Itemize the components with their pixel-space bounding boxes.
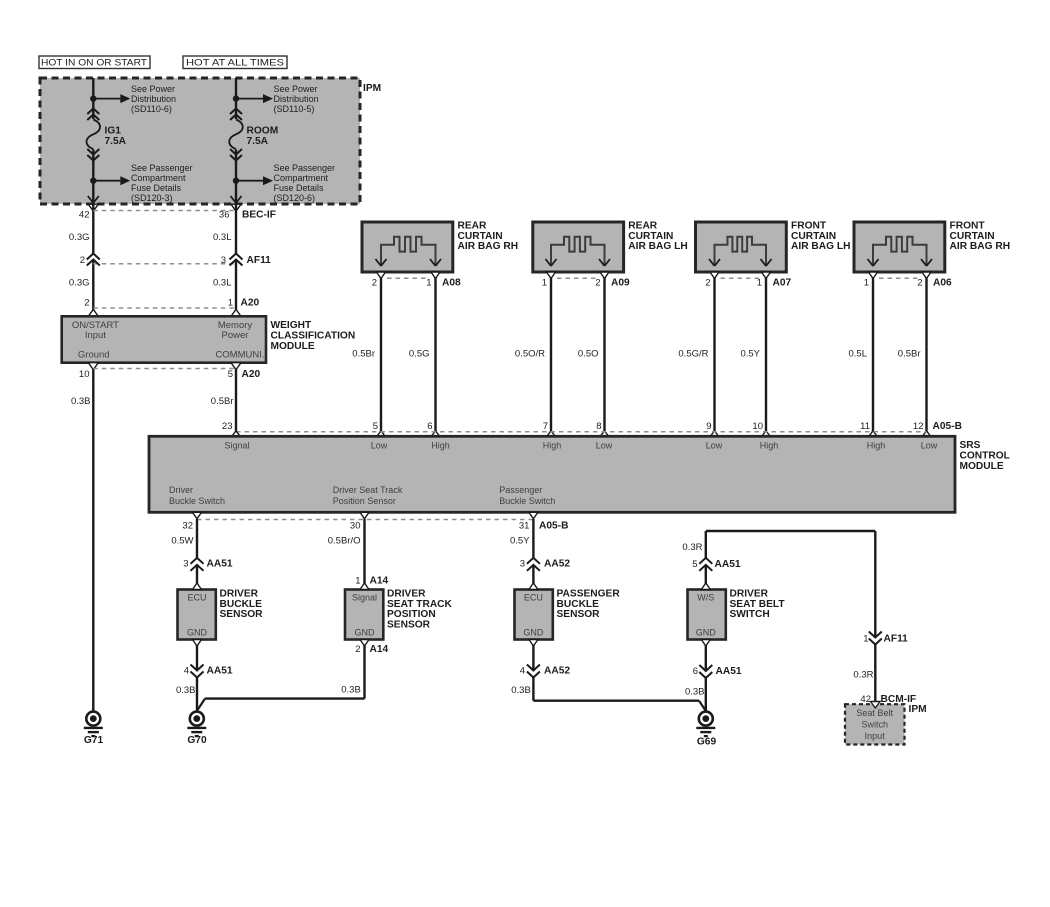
- svg-text:PASSENGER: PASSENGER: [557, 588, 621, 599]
- svg-text:ROOM: ROOM: [247, 126, 279, 137]
- svg-text:1: 1: [228, 298, 233, 309]
- svg-text:WEIGHT: WEIGHT: [271, 320, 313, 331]
- svg-text:Input: Input: [85, 330, 106, 341]
- svg-text:5: 5: [228, 369, 233, 380]
- svg-text:(SD120-3): (SD120-3): [131, 193, 173, 203]
- svg-text:MODULE: MODULE: [271, 341, 315, 352]
- svg-text:Driver: Driver: [169, 485, 193, 495]
- svg-text:Distribution: Distribution: [274, 94, 319, 104]
- svg-text:A20: A20: [242, 369, 261, 380]
- svg-text:AA52: AA52: [544, 666, 570, 677]
- svg-text:DRIVER: DRIVER: [220, 588, 259, 599]
- svg-text:0.5O/R: 0.5O/R: [515, 349, 545, 360]
- svg-text:IG1: IG1: [105, 126, 122, 137]
- svg-text:Compartment: Compartment: [131, 173, 186, 183]
- svg-text:Buckle Switch: Buckle Switch: [169, 496, 225, 506]
- svg-text:0.5G/R: 0.5G/R: [678, 349, 708, 360]
- svg-text:POSITION: POSITION: [387, 609, 436, 620]
- svg-text:0.5O: 0.5O: [578, 349, 599, 360]
- svg-text:0.5G: 0.5G: [409, 349, 430, 360]
- svg-text:A09: A09: [611, 277, 630, 288]
- svg-text:BUCKLE: BUCKLE: [220, 599, 263, 610]
- svg-text:BUCKLE: BUCKLE: [557, 599, 600, 610]
- svg-text:GND: GND: [696, 627, 717, 637]
- svg-text:AF11: AF11: [884, 633, 909, 644]
- svg-text:23: 23: [222, 421, 233, 432]
- svg-text:7: 7: [543, 421, 548, 432]
- svg-text:4: 4: [184, 666, 189, 677]
- svg-text:A06: A06: [933, 277, 952, 288]
- svg-text:Power: Power: [222, 330, 249, 341]
- svg-text:SWITCH: SWITCH: [730, 609, 770, 620]
- svg-text:AIR BAG RH: AIR BAG RH: [458, 241, 519, 252]
- svg-text:AA52: AA52: [544, 559, 570, 570]
- svg-text:6: 6: [427, 421, 432, 432]
- svg-text:SENSOR: SENSOR: [557, 609, 601, 620]
- svg-text:0.5Y: 0.5Y: [740, 349, 760, 360]
- svg-text:See Passenger: See Passenger: [274, 163, 336, 173]
- svg-text:GND: GND: [355, 627, 376, 637]
- svg-text:COMMUNI.: COMMUNI.: [215, 349, 264, 360]
- svg-text:2: 2: [80, 255, 85, 266]
- svg-text:32: 32: [182, 520, 193, 531]
- svg-text:12: 12: [913, 421, 924, 432]
- svg-text:A05-B: A05-B: [933, 421, 962, 432]
- svg-text:HOT AT ALL TIMES: HOT AT ALL TIMES: [186, 58, 284, 69]
- svg-text:0.3G: 0.3G: [69, 278, 90, 289]
- svg-text:G71: G71: [84, 735, 104, 746]
- svg-text:CLASSIFICATION: CLASSIFICATION: [271, 330, 356, 341]
- svg-text:Switch: Switch: [861, 719, 888, 729]
- svg-text:0.5Br: 0.5Br: [211, 396, 234, 407]
- svg-text:See Power: See Power: [274, 84, 318, 94]
- svg-text:AIR BAG RH: AIR BAG RH: [950, 241, 1011, 252]
- svg-text:0.5W: 0.5W: [171, 536, 193, 547]
- svg-text:High: High: [867, 441, 886, 451]
- svg-text:AA51: AA51: [207, 559, 233, 570]
- svg-text:SENSOR: SENSOR: [220, 609, 264, 620]
- svg-text:0.3L: 0.3L: [213, 232, 232, 243]
- svg-text:Ground: Ground: [78, 349, 110, 360]
- svg-text:Signal: Signal: [224, 441, 249, 451]
- svg-text:AA51: AA51: [716, 666, 742, 677]
- svg-text:Distribution: Distribution: [131, 94, 176, 104]
- svg-text:G70: G70: [187, 735, 207, 746]
- svg-text:3: 3: [520, 559, 525, 570]
- svg-text:Low: Low: [371, 441, 388, 451]
- svg-text:High: High: [543, 441, 562, 451]
- svg-text:See Power: See Power: [131, 84, 175, 94]
- svg-text:IPM: IPM: [363, 83, 381, 94]
- svg-text:SRS: SRS: [960, 440, 981, 451]
- svg-text:2: 2: [917, 277, 922, 288]
- svg-text:0.3B: 0.3B: [71, 396, 91, 407]
- svg-text:6: 6: [693, 666, 698, 677]
- svg-text:0.5Br/O: 0.5Br/O: [328, 536, 361, 547]
- svg-text:SEAT BELT: SEAT BELT: [730, 599, 786, 610]
- svg-text:1: 1: [426, 277, 431, 288]
- svg-text:Input: Input: [865, 731, 886, 741]
- svg-text:A20: A20: [241, 298, 260, 309]
- svg-text:5: 5: [692, 559, 697, 570]
- svg-text:Passenger: Passenger: [499, 485, 542, 495]
- svg-text:4: 4: [520, 666, 525, 677]
- svg-text:1: 1: [863, 633, 868, 644]
- svg-text:0.5Br: 0.5Br: [352, 349, 375, 360]
- svg-text:A08: A08: [442, 277, 461, 288]
- svg-text:0.3B: 0.3B: [341, 684, 361, 695]
- svg-text:0.5Br: 0.5Br: [898, 349, 921, 360]
- svg-text:Position Sensor: Position Sensor: [333, 496, 396, 506]
- svg-text:G69: G69: [697, 737, 717, 748]
- svg-text:(SD110-6): (SD110-6): [131, 104, 172, 114]
- svg-text:0.3R: 0.3R: [682, 542, 702, 553]
- svg-text:AA51: AA51: [207, 666, 233, 677]
- svg-text:A05-B: A05-B: [539, 520, 568, 531]
- svg-text:IPM: IPM: [909, 704, 927, 715]
- svg-text:DRIVER: DRIVER: [730, 588, 769, 599]
- svg-text:3: 3: [221, 255, 226, 266]
- svg-text:0.3B: 0.3B: [511, 685, 531, 696]
- svg-text:9: 9: [706, 421, 711, 432]
- svg-text:Low: Low: [596, 441, 613, 451]
- svg-text:0.5Y: 0.5Y: [510, 536, 530, 547]
- svg-text:ECU: ECU: [187, 592, 206, 602]
- svg-text:8: 8: [596, 421, 601, 432]
- svg-text:SENSOR: SENSOR: [387, 620, 431, 631]
- svg-text:Fuse Details: Fuse Details: [274, 183, 325, 193]
- svg-text:DRIVER: DRIVER: [387, 588, 426, 599]
- svg-text:7.5A: 7.5A: [247, 136, 269, 147]
- svg-text:5: 5: [373, 421, 378, 432]
- svg-text:1: 1: [355, 576, 360, 587]
- svg-text:0.3L: 0.3L: [213, 278, 232, 289]
- svg-text:A14: A14: [370, 644, 389, 655]
- svg-text:0.3B: 0.3B: [176, 685, 196, 696]
- svg-text:(SD110-5): (SD110-5): [274, 104, 315, 114]
- svg-text:Driver Seat Track: Driver Seat Track: [333, 485, 403, 495]
- svg-text:Compartment: Compartment: [274, 173, 329, 183]
- svg-text:GND: GND: [523, 627, 544, 637]
- svg-text:See Passenger: See Passenger: [131, 163, 193, 173]
- svg-text:7.5A: 7.5A: [105, 136, 127, 147]
- svg-text:1: 1: [542, 277, 547, 288]
- svg-text:3: 3: [183, 559, 188, 570]
- svg-text:Low: Low: [921, 441, 938, 451]
- svg-text:GND: GND: [187, 627, 208, 637]
- svg-text:2: 2: [705, 277, 710, 288]
- svg-text:2: 2: [84, 298, 89, 309]
- svg-text:MODULE: MODULE: [960, 461, 1004, 472]
- svg-text:2: 2: [355, 644, 360, 655]
- svg-text:1: 1: [757, 277, 762, 288]
- svg-text:CONTROL: CONTROL: [960, 450, 1010, 461]
- svg-text:36: 36: [219, 210, 230, 221]
- svg-text:11: 11: [860, 421, 870, 432]
- svg-text:Low: Low: [706, 441, 723, 451]
- svg-text:HOT IN ON OR START: HOT IN ON OR START: [41, 58, 147, 69]
- svg-text:2: 2: [372, 277, 377, 288]
- svg-text:31: 31: [519, 520, 530, 531]
- svg-text:High: High: [760, 441, 779, 451]
- svg-text:(SD120-6): (SD120-6): [274, 193, 316, 203]
- svg-text:10: 10: [79, 369, 90, 380]
- svg-text:ECU: ECU: [524, 592, 543, 602]
- svg-text:Seat Belt: Seat Belt: [856, 708, 893, 718]
- svg-text:0.5L: 0.5L: [849, 349, 868, 360]
- svg-text:AA51: AA51: [715, 559, 741, 570]
- svg-text:W/S: W/S: [697, 592, 714, 602]
- svg-text:0.3G: 0.3G: [69, 232, 90, 243]
- svg-text:0.3R: 0.3R: [853, 670, 873, 681]
- svg-text:High: High: [431, 441, 450, 451]
- svg-text:AIR BAG LH: AIR BAG LH: [791, 241, 850, 252]
- svg-text:AIR BAG LH: AIR BAG LH: [628, 241, 687, 252]
- svg-text:42: 42: [79, 210, 90, 221]
- svg-text:BEC-IF: BEC-IF: [242, 210, 276, 221]
- svg-text:Fuse Details: Fuse Details: [131, 183, 182, 193]
- svg-text:Buckle Switch: Buckle Switch: [499, 496, 555, 506]
- svg-text:30: 30: [350, 520, 361, 531]
- svg-text:1: 1: [864, 277, 869, 288]
- svg-text:0.3B: 0.3B: [685, 686, 705, 697]
- svg-text:A14: A14: [370, 576, 389, 587]
- svg-text:Signal: Signal: [352, 592, 377, 602]
- svg-text:AF11: AF11: [247, 255, 272, 266]
- svg-text:2: 2: [595, 277, 600, 288]
- svg-text:10: 10: [752, 421, 763, 432]
- svg-text:A07: A07: [773, 277, 792, 288]
- svg-text:SEAT TRACK: SEAT TRACK: [387, 599, 453, 610]
